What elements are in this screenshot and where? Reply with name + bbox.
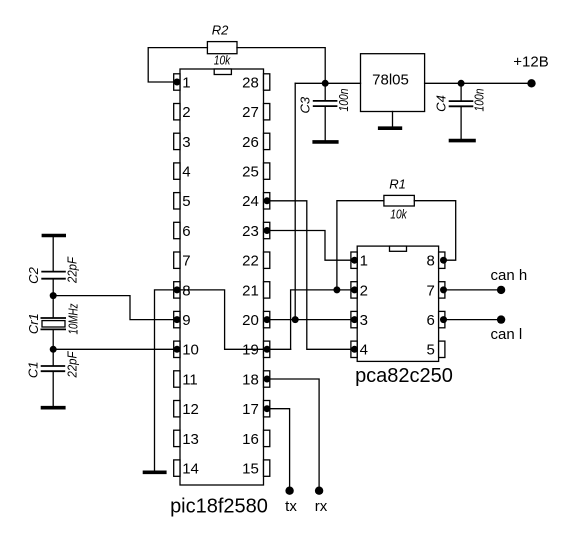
svg-text:can h: can h xyxy=(491,267,528,284)
svg-text:28: 28 xyxy=(242,74,259,91)
capacitor C4 100n xyxy=(433,83,486,139)
svg-text:pic18f2580: pic18f2580 xyxy=(170,496,268,518)
svg-text:3: 3 xyxy=(360,312,368,329)
junction U1 pin 23 xyxy=(264,227,271,234)
wire crystal bottom to pin 10 xyxy=(53,348,177,350)
junction C4 rail xyxy=(458,80,465,87)
wire pin 17 to tx terminal xyxy=(267,409,290,491)
U1 pin 18 xyxy=(242,371,270,389)
svg-text:27: 27 xyxy=(242,104,259,121)
svg-text:26: 26 xyxy=(242,134,259,151)
svg-text:5: 5 xyxy=(182,193,190,210)
ground bar under C3 xyxy=(312,140,338,144)
junction U1 pin 24 xyxy=(264,197,271,204)
svg-text:17: 17 xyxy=(242,401,259,418)
svg-text:1: 1 xyxy=(360,253,368,270)
U1 pin 7 xyxy=(174,252,191,270)
svg-text:8: 8 xyxy=(182,282,190,299)
U1 pin 21 xyxy=(242,282,270,300)
node crystal top junction xyxy=(50,292,57,299)
U1 pin 10 xyxy=(174,341,199,359)
regulator VR1 78l05 xyxy=(361,54,425,112)
wire R1 left to ground net xyxy=(337,201,384,290)
junction C3 rail xyxy=(322,80,329,87)
svg-text:100n: 100n xyxy=(472,89,487,112)
U1 pin 20 xyxy=(242,311,270,329)
U1 pin 23 xyxy=(242,222,270,240)
svg-text:+12B: +12B xyxy=(513,54,548,71)
U1 pin 2 xyxy=(174,104,191,122)
IC U1 pic18f2580 body xyxy=(180,69,264,485)
U1 pin 19 xyxy=(242,341,270,359)
svg-text:C3: C3 xyxy=(298,96,313,113)
wire pin 20 to U2 pin 3 (VCC) xyxy=(267,319,355,321)
wire ground link to U2 pin 2 xyxy=(291,290,355,349)
wire pin1 to R2 left xyxy=(148,48,207,82)
svg-text:13: 13 xyxy=(182,431,199,448)
junction U1 pin 20 xyxy=(264,316,271,323)
svg-text:C2: C2 xyxy=(26,266,41,283)
svg-text:can l: can l xyxy=(491,326,523,343)
svg-text:R1: R1 xyxy=(389,177,406,192)
wire pin 8 to ground xyxy=(155,290,178,471)
junction U1 pin 8 xyxy=(174,286,181,293)
node can l terminal xyxy=(497,315,505,323)
wire pin 23 to U2 pin 1 (TXD) xyxy=(267,231,355,261)
svg-text:11: 11 xyxy=(182,371,198,388)
svg-text:7: 7 xyxy=(426,282,434,299)
svg-text:C4: C4 xyxy=(433,95,448,112)
U1 pin 22 xyxy=(242,252,270,270)
svg-text:10k: 10k xyxy=(214,52,232,67)
junction U1 pin 9 xyxy=(174,316,181,323)
svg-text:24: 24 xyxy=(242,193,259,210)
ground bar under C4 xyxy=(449,139,476,143)
junction U2 pin 3 xyxy=(351,316,358,323)
svg-text:C1: C1 xyxy=(26,361,41,378)
svg-text:1: 1 xyxy=(182,74,190,91)
svg-text:9: 9 xyxy=(182,312,190,329)
U1 pin 27 xyxy=(242,104,270,122)
wire pin 19 ground link xyxy=(267,348,291,350)
svg-text:19: 19 xyxy=(242,342,259,359)
junction U1 pin 1 xyxy=(174,79,181,86)
svg-text:3: 3 xyxy=(182,134,190,151)
U1 pin 11 xyxy=(174,371,198,389)
svg-text:23: 23 xyxy=(242,223,259,240)
wire pin 18 to rx terminal xyxy=(267,379,319,491)
U1 pin 4 xyxy=(174,163,191,181)
svg-text:tx: tx xyxy=(285,498,297,515)
svg-text:78l05: 78l05 xyxy=(372,71,409,88)
svg-text:5: 5 xyxy=(426,342,434,359)
U1 pin 12 xyxy=(174,401,199,419)
svg-text:20: 20 xyxy=(242,312,259,329)
junction U2 pin 1 xyxy=(351,257,358,264)
U1 pin 1 xyxy=(174,74,191,92)
U2 pin 1 xyxy=(351,252,368,270)
resistor R2 xyxy=(207,23,237,68)
U1 pin 28 xyxy=(242,74,270,92)
wire +12V rail right segment xyxy=(425,82,532,84)
node tx terminal xyxy=(285,487,293,495)
regulator ground lead xyxy=(392,112,394,127)
U1 pin 16 xyxy=(242,430,270,448)
junction +5V at pin 20 wire xyxy=(292,316,299,323)
U2 pin 8 xyxy=(426,252,444,270)
wire pin 8 to pin 19 Vss interior xyxy=(177,290,267,349)
U2 pin 7 xyxy=(426,282,444,300)
U1 pin 6 xyxy=(174,222,191,240)
U1 pin 13 xyxy=(174,430,199,448)
U2 pin 2 xyxy=(351,282,368,300)
junction U1 pin 19 xyxy=(264,346,271,353)
U1 pin 26 xyxy=(242,133,270,151)
svg-text:18: 18 xyxy=(242,371,259,388)
ground bar under 78l05 xyxy=(378,126,402,130)
U1 pin 3 xyxy=(174,133,191,151)
svg-text:100n: 100n xyxy=(336,89,351,112)
junction U2 pin 8 xyxy=(440,257,447,264)
wire +5V vertical to pin 20 xyxy=(294,83,296,319)
svg-text:rx: rx xyxy=(315,498,328,515)
capacitor C3 100n xyxy=(298,83,351,140)
node can h terminal xyxy=(497,286,505,294)
svg-text:4: 4 xyxy=(182,164,190,181)
U1 pin 5 xyxy=(174,193,191,211)
capacitor C1 22pF xyxy=(26,349,80,406)
ground bar above C2 xyxy=(42,234,66,238)
U1 pin 17 xyxy=(242,401,270,419)
wire +5V rail left segment xyxy=(295,82,360,84)
svg-text:Cr1: Cr1 xyxy=(26,313,41,334)
svg-text:16: 16 xyxy=(242,431,259,448)
U2 pin 5 xyxy=(426,341,444,359)
wire R1 right to U2 pin 8 xyxy=(414,201,455,261)
svg-text:21: 21 xyxy=(242,282,259,299)
wire U2 pin 6 to can l terminal xyxy=(444,319,502,321)
crystal Cr1 10MHz xyxy=(26,296,81,350)
capacitor C2 22pF xyxy=(26,237,80,295)
junction R1 ground xyxy=(333,286,340,293)
svg-text:4: 4 xyxy=(360,342,368,359)
svg-text:2: 2 xyxy=(182,104,190,121)
svg-text:10: 10 xyxy=(182,342,199,359)
svg-text:22pF: 22pF xyxy=(65,256,80,284)
junction U1 pin 10 xyxy=(174,346,181,353)
junction U2 pin 7 xyxy=(440,286,447,293)
U1 pin 24 xyxy=(242,193,270,211)
svg-text:12: 12 xyxy=(182,401,199,418)
U1 pin 8 xyxy=(174,282,191,300)
svg-text:10k: 10k xyxy=(390,206,408,221)
svg-text:14: 14 xyxy=(182,461,199,478)
node crystal bottom junction xyxy=(50,346,57,353)
U1 pin 9 xyxy=(174,311,191,329)
resistor R1 xyxy=(384,177,414,222)
svg-text:pca82c250: pca82c250 xyxy=(355,365,453,387)
svg-text:6: 6 xyxy=(182,223,190,240)
ground bar below C1 xyxy=(41,406,66,410)
wire U2 pin 7 to can h terminal xyxy=(444,289,502,291)
ground bar bottom left xyxy=(143,470,167,474)
svg-text:25: 25 xyxy=(242,164,259,181)
svg-text:10MHz: 10MHz xyxy=(66,303,81,334)
junction U1 pin 18 xyxy=(264,376,271,383)
svg-text:8: 8 xyxy=(426,253,434,270)
U1 pin 15 xyxy=(242,460,270,478)
junction U2 pin 6 xyxy=(440,316,447,323)
node rx terminal xyxy=(315,487,323,495)
wire crystal top to pin 9 xyxy=(53,296,177,320)
U2 pin 6 xyxy=(426,311,444,329)
U1 pin 14 xyxy=(174,460,199,478)
svg-text:22: 22 xyxy=(242,253,259,270)
svg-text:R2: R2 xyxy=(212,23,229,38)
U2 pin 4 xyxy=(351,341,368,359)
wire pin 24 to U2 pin 4 (RXD) xyxy=(267,201,355,349)
svg-text:7: 7 xyxy=(182,253,190,270)
svg-text:15: 15 xyxy=(242,461,259,478)
junction U1 pin 17 xyxy=(264,405,271,412)
junction U2 pin 4 xyxy=(351,346,358,353)
IC U2 pca82c250 body xyxy=(357,246,438,361)
node +12B terminal xyxy=(527,79,535,87)
svg-text:22pF: 22pF xyxy=(65,351,80,379)
svg-text:6: 6 xyxy=(426,312,434,329)
U2 pin 3 xyxy=(351,311,368,329)
wire R2 right to +5V rail xyxy=(237,48,325,84)
svg-text:2: 2 xyxy=(360,282,368,299)
U1 pin 25 xyxy=(242,163,270,181)
junction U2 pin 2 xyxy=(351,286,358,293)
